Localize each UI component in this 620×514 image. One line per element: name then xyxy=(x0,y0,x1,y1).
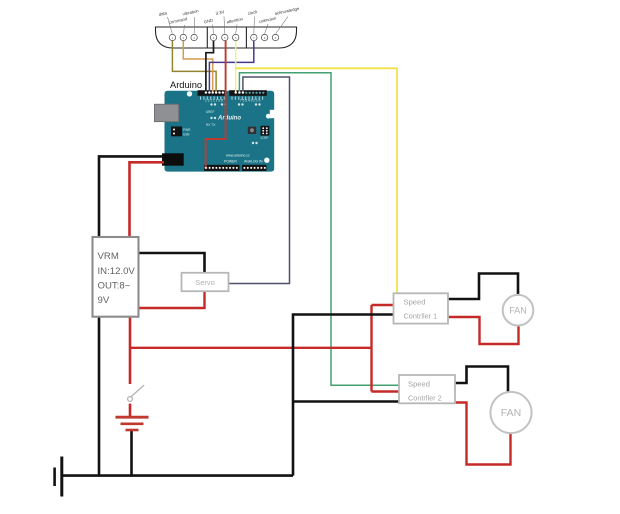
label 3.3V xyxy=(215,9,225,33)
pin 8 xyxy=(261,34,267,40)
wire speed controller 2 to fan 2 (black) xyxy=(455,367,508,393)
battery BT1 xyxy=(116,417,149,430)
wire red distribution horizontal xyxy=(130,347,372,349)
svg-text:Speed: Speed xyxy=(404,298,426,307)
speed controller 1 xyxy=(394,293,449,323)
svg-text:POWER: POWER xyxy=(224,160,237,164)
pin 2 xyxy=(180,34,186,40)
wire attention (yellow) xyxy=(235,41,237,92)
label vibration xyxy=(182,8,200,34)
wire red distribution vertical xyxy=(370,305,372,392)
svg-text:FAN: FAN xyxy=(501,407,521,419)
pin 5 xyxy=(222,34,228,40)
svg-text:Contrller 2: Contrller 2 xyxy=(408,394,442,403)
wire servo to VRM (red) xyxy=(139,291,205,309)
svg-text:9V: 9V xyxy=(98,295,110,306)
label acknowledge xyxy=(274,6,300,34)
ground xyxy=(55,457,62,497)
wire command (orange) xyxy=(183,41,212,92)
wire clock (navy) xyxy=(209,41,253,92)
wire black to speed controller 1 xyxy=(293,315,394,476)
svg-text:IN:12.0V: IN:12.0V xyxy=(98,266,136,277)
label command xyxy=(168,16,188,34)
wire data (olive) xyxy=(172,41,216,92)
wire black to speed controller 2 xyxy=(293,400,454,403)
arduino board U1 xyxy=(155,90,275,171)
pin 9 xyxy=(272,34,278,40)
wire GND (black) xyxy=(206,41,214,92)
fan FAN1 xyxy=(503,295,534,326)
switch S1 xyxy=(128,385,145,416)
svg-text:AREF: AREF xyxy=(206,110,215,114)
wire 3.3V (red) xyxy=(206,41,226,168)
wire speed controller 1 to fan 1 (black) xyxy=(448,274,518,300)
label unknown xyxy=(259,15,277,33)
svg-text:FAN: FAN xyxy=(509,305,527,315)
voltage regulator VRM xyxy=(93,237,139,317)
svg-text:1 3 1 1 1 9 8: 1 3 1 1 1 9 8 xyxy=(205,99,223,103)
svg-text:RX TX: RX TX xyxy=(206,123,216,127)
label data xyxy=(158,10,172,33)
wire battery to bus (black) xyxy=(130,431,133,476)
label attention xyxy=(226,16,244,34)
wire speed controller 1 to fan 1 (red) xyxy=(448,317,519,344)
wire red to speed controller 2 xyxy=(372,390,400,392)
wire speed controller 2 to fan 2 (red) xyxy=(452,403,511,465)
svg-text:ICSP: ICSP xyxy=(261,136,270,140)
Vin hole dot xyxy=(205,167,207,169)
wire VRM to battery (red) xyxy=(129,317,132,384)
label clock xyxy=(247,9,258,34)
pin 7 xyxy=(251,34,257,40)
svg-text:www.arduino.cc: www.arduino.cc xyxy=(226,154,250,158)
svg-text:VRM: VRM xyxy=(98,251,119,262)
wire VRM to servo (black) xyxy=(139,253,205,274)
svg-text:Contrller 1: Contrller 1 xyxy=(404,312,438,321)
svg-text:PWR: PWR xyxy=(183,128,191,132)
header pin holes xyxy=(205,91,244,93)
svg-text:7 6 5 4 3 2 1 0: 7 6 5 4 3 2 1 0 xyxy=(240,99,261,103)
pin 1 xyxy=(169,34,175,40)
wire red to speed controller 1 xyxy=(372,304,394,306)
wire servo signal (dark slate) xyxy=(229,77,290,284)
svg-text:Servo: Servo xyxy=(195,278,215,287)
svg-text:Arduino: Arduino xyxy=(170,80,202,90)
svg-text:OUT:8~: OUT:8~ xyxy=(98,281,131,292)
svg-text:Speed: Speed xyxy=(408,380,430,389)
pin 3 xyxy=(191,34,197,40)
connector J1 xyxy=(156,27,297,48)
svg-text:Arduino: Arduino xyxy=(217,116,241,122)
label GND xyxy=(203,18,213,34)
pin 4 xyxy=(210,34,216,40)
pin 6 xyxy=(233,34,239,40)
wire digital to speed controller 2 (green) xyxy=(239,73,398,386)
speed controller 2 xyxy=(399,375,455,403)
wire attention to speed controller 1 (yellow) xyxy=(236,68,397,292)
fan FAN2 xyxy=(490,392,531,433)
servo M1 xyxy=(182,273,229,291)
wire ground bus (black) xyxy=(62,474,293,477)
svg-text:USB: USB xyxy=(183,133,190,137)
svg-text:ANALOG IN: ANALOG IN xyxy=(244,160,263,164)
wire power jack to VRM (red) xyxy=(130,162,165,238)
wire power jack to VRM (black) xyxy=(99,156,164,475)
